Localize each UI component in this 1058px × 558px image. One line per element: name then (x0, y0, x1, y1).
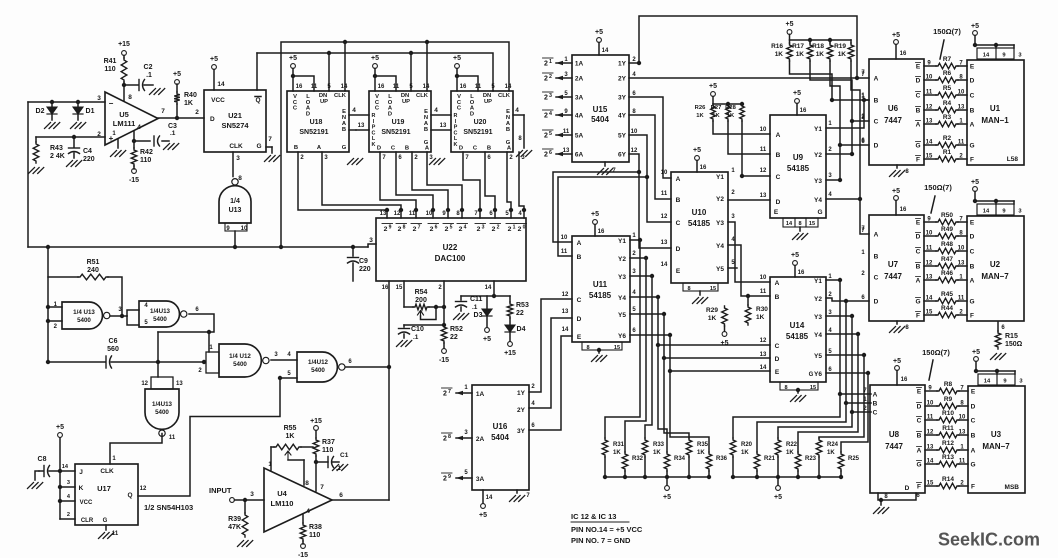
wire U5 output (158, 108, 204, 118)
svg-text:F: F (970, 313, 974, 320)
wire U22 pin 15 (403, 281, 405, 307)
wire U14 Y5 to R24 (819, 353, 866, 438)
input arrow 2^7 to U16 (442, 388, 473, 398)
svg-text:3: 3 (482, 225, 485, 231)
svg-text:C11: C11 (470, 296, 483, 303)
svg-text:R26: R26 (695, 105, 706, 111)
svg-text:C: C (577, 297, 582, 304)
svg-text:14: 14 (562, 327, 569, 333)
svg-text:Y5: Y5 (716, 266, 724, 273)
svg-text:8: 8 (687, 286, 690, 292)
svg-text:14: 14 (786, 221, 793, 227)
svg-text:2: 2 (67, 512, 70, 518)
svg-text:16: 16 (382, 285, 389, 291)
svg-text:D: D (916, 234, 921, 241)
svg-text:C4: C4 (83, 148, 92, 155)
svg-text:C: C (776, 174, 781, 181)
svg-text:6: 6 (195, 307, 199, 313)
svg-text:1: 1 (549, 59, 552, 65)
svg-text:U15: U15 (593, 105, 608, 114)
svg-text:14: 14 (505, 84, 512, 90)
svg-text:12: 12 (562, 292, 569, 298)
input arrow 2^9 to U16 (442, 473, 473, 483)
svg-text:3: 3 (236, 155, 240, 162)
wire net to U11 A (553, 170, 641, 242)
wire U15 3Y to U10 A (629, 97, 671, 178)
svg-text:Y4: Y4 (716, 243, 724, 250)
svg-text:C: C (917, 418, 922, 425)
svg-text:5: 5 (144, 320, 148, 326)
capacitor C6 560 (46, 338, 206, 368)
resistor R50 150ohm (924, 212, 967, 225)
wire U22 pin 3 node line (28, 244, 376, 247)
svg-text:CLK: CLK (498, 93, 511, 99)
svg-text:+5: +5 (793, 90, 801, 97)
svg-text:R16: R16 (771, 43, 783, 50)
svg-text:9: 9 (1003, 379, 1007, 385)
resistor R5 150ohm (924, 85, 967, 98)
svg-text:7447: 7447 (884, 116, 902, 125)
svg-text:+15: +15 (310, 418, 322, 425)
svg-text:2: 2 (544, 113, 548, 120)
svg-text:R17: R17 (792, 43, 804, 50)
svg-text:LM110: LM110 (271, 499, 294, 508)
counter U18 SN52191 (287, 84, 349, 152)
svg-text:6: 6 (861, 139, 865, 145)
power -15 at R38 (298, 541, 308, 558)
power +5 strap at U2 (971, 179, 1022, 215)
svg-text:6A: 6A (575, 152, 584, 159)
svg-text:A: A (873, 392, 878, 399)
power +5 at U21 pin 14 (210, 56, 225, 90)
svg-text:R9: R9 (944, 396, 953, 403)
wire U9 Y4 to U7 A (826, 199, 869, 234)
svg-text:2: 2 (544, 152, 548, 159)
resistor R17 1K (792, 43, 813, 61)
wire U16 1Y to U11 C (529, 299, 572, 392)
svg-text:C: C (457, 106, 462, 112)
svg-text:SN52191: SN52191 (299, 129, 328, 136)
input arrow 2^1 to U15 (543, 58, 573, 68)
svg-text:5: 5 (828, 349, 832, 355)
svg-text:13: 13 (562, 309, 569, 315)
svg-text:R51: R51 (87, 259, 100, 266)
svg-text:Y5: Y5 (814, 353, 822, 360)
svg-text:R42: R42 (140, 149, 153, 156)
input arrow 2^4 to U15 (543, 110, 573, 120)
svg-text:11: 11 (169, 435, 176, 441)
wire bus A drop to U19 pin 14 (426, 42, 428, 91)
svg-text:8: 8 (884, 494, 888, 500)
svg-text:2: 2 (300, 155, 304, 161)
svg-text:J: J (79, 469, 83, 476)
svg-text:B: B (294, 145, 298, 151)
resistor R11 150ohm (925, 425, 968, 438)
capacitor C3 .1 (132, 123, 179, 150)
svg-text:1K: 1K (727, 113, 735, 119)
svg-text:G: G (809, 372, 814, 378)
svg-text:2: 2 (549, 74, 552, 80)
svg-text:15: 15 (810, 385, 816, 391)
svg-text:1: 1 (209, 345, 213, 351)
converter U14 54185 (760, 274, 833, 382)
svg-text:G: G (506, 140, 511, 146)
svg-text:16: 16 (378, 84, 385, 90)
svg-text:6: 6 (549, 150, 552, 156)
svg-text:C: C (473, 146, 478, 152)
svg-text:5: 5 (564, 91, 568, 97)
diode D3 (474, 296, 492, 327)
power +5 at U19 pin 16 (371, 55, 396, 91)
wire U14 Y4 to R23 (798, 332, 860, 452)
svg-text:12: 12 (631, 148, 638, 154)
resistor R30 1K (745, 294, 768, 325)
svg-text:G: G (342, 145, 347, 151)
wire U14 Y3 to U8 C and R22 (778, 314, 871, 438)
svg-text:U11: U11 (593, 280, 608, 289)
svg-text:3A: 3A (575, 95, 584, 102)
svg-text:U17: U17 (97, 484, 111, 493)
svg-text:D1: D1 (86, 108, 95, 115)
svg-text:+5: +5 (971, 179, 979, 186)
ground tab at U11 (582, 342, 622, 362)
svg-text:14: 14 (984, 379, 991, 385)
svg-text:R39: R39 (228, 516, 241, 523)
svg-text:G: G (970, 462, 975, 469)
svg-text:1: 1 (863, 397, 867, 403)
svg-text:1K: 1K (653, 450, 661, 456)
wire U19 ENAB pin 4 to U20 (431, 107, 451, 130)
svg-text:R1: R1 (943, 149, 952, 156)
svg-text:4: 4 (549, 111, 552, 117)
svg-text:12: 12 (760, 338, 767, 344)
svg-text:1K: 1K (184, 100, 193, 107)
svg-text:1: 1 (861, 250, 865, 256)
svg-text:3: 3 (828, 310, 832, 316)
svg-text:Y1: Y1 (814, 278, 822, 285)
svg-text:1K: 1K (775, 51, 784, 58)
svg-text:16: 16 (900, 207, 907, 213)
svg-text:+5: +5 (173, 71, 181, 78)
svg-text:E: E (774, 209, 779, 216)
svg-text:110: 110 (104, 66, 115, 73)
wire U19 pin2 to DAC U22 (412, 152, 448, 218)
wire R31-R36 common bus to +5 (605, 477, 709, 485)
wire U20 pin7 to DAC U22 (463, 152, 480, 218)
power +15 at D4 (504, 342, 516, 357)
svg-text:C: C (375, 106, 380, 112)
wire U10 Y4 to U14 B (728, 245, 770, 296)
svg-text:7: 7 (861, 228, 865, 234)
svg-text:A: A (775, 280, 780, 287)
wire U9 Y2 to U6 C (826, 114, 869, 156)
svg-text:A: A (916, 122, 921, 129)
svg-text:1/2 SN54H103: 1/2 SN54H103 (144, 503, 193, 512)
svg-text:1Y: 1Y (517, 390, 526, 397)
resistor R18 1K (812, 43, 833, 61)
resistor R9 150ohm (925, 396, 968, 409)
svg-text:R38: R38 (309, 524, 322, 531)
svg-text:DAC100: DAC100 (435, 254, 466, 263)
svg-text:150Ω(7): 150Ω(7) (922, 348, 950, 357)
power +5 at U14 pin 16 (791, 252, 805, 277)
wire U19 pin7 to DAC U22 (380, 152, 416, 218)
svg-text:K: K (454, 142, 458, 148)
label 150ohm(7) for U1 resistors (933, 27, 961, 59)
svg-text:VCC: VCC (80, 500, 93, 506)
capacitor C9 220 (348, 245, 371, 281)
svg-text:8: 8 (403, 225, 406, 231)
wire R20-R25 common bus to +5 (733, 477, 841, 485)
svg-text:16: 16 (901, 377, 908, 383)
svg-text:8: 8 (456, 211, 460, 217)
svg-text:.1: .1 (413, 334, 419, 341)
svg-text:9: 9 (1002, 53, 1006, 59)
svg-text:2: 2 (430, 226, 434, 233)
svg-text:A: A (970, 122, 975, 129)
wire U14 Y6 to R25 (826, 371, 870, 452)
svg-text:9: 9 (1002, 209, 1006, 215)
svg-text:E: E (971, 389, 976, 396)
svg-text:4: 4 (137, 124, 141, 131)
power +5 at U20 pin 16 (453, 55, 478, 91)
svg-text:5404: 5404 (491, 433, 509, 442)
svg-text:U6: U6 (888, 104, 899, 113)
svg-text:110: 110 (309, 532, 320, 539)
svg-text:R4: R4 (943, 100, 952, 107)
svg-text:B: B (873, 401, 878, 408)
svg-text:2: 2 (195, 109, 199, 116)
svg-text:Y2: Y2 (814, 152, 822, 159)
svg-text:4: 4 (434, 107, 438, 114)
svg-text:13: 13 (661, 240, 668, 246)
wire U10 Y3 to U14 A (728, 222, 770, 282)
wire R18 to U6 D net (830, 61, 842, 147)
svg-text:B: B (917, 433, 922, 440)
svg-text:R21: R21 (764, 456, 776, 462)
svg-text:11: 11 (112, 531, 119, 537)
svg-text:+5: +5 (693, 147, 701, 154)
ground tab at U10 (683, 283, 718, 304)
svg-text:E: E (577, 334, 582, 341)
svg-text:3: 3 (521, 155, 525, 161)
svg-text:Y2: Y2 (814, 296, 822, 303)
svg-text:Y6: Y6 (814, 371, 822, 378)
svg-text:R22: R22 (786, 442, 798, 448)
svg-text:C: C (916, 93, 921, 100)
power +15 supply (118, 41, 130, 58)
resistor R46 150ohm (924, 270, 967, 283)
wire DAC input junction dots (385, 208, 526, 212)
svg-text:B: B (577, 254, 582, 261)
wire gate U13c output to gate U12a and U13d (156, 314, 214, 377)
svg-text:Q: Q (255, 97, 260, 104)
wire U9 Y3 to U6 D (826, 138, 869, 182)
svg-text:7447: 7447 (884, 272, 902, 281)
svg-text:R18: R18 (812, 43, 824, 50)
svg-text:SN52191: SN52191 (463, 129, 492, 136)
svg-text:U16: U16 (493, 422, 508, 431)
resistor R21 (754, 452, 775, 479)
svg-text:560: 560 (107, 346, 119, 353)
svg-text:22: 22 (516, 310, 524, 317)
svg-text:14: 14 (983, 53, 990, 59)
svg-text:1: 1 (632, 233, 636, 239)
wire U20 pin 4 to ground (513, 107, 532, 157)
svg-text:6: 6 (916, 493, 920, 499)
svg-text:14: 14 (661, 262, 668, 268)
nand gate U12b 1/4U12 5400 (297, 352, 352, 382)
svg-text:R19: R19 (834, 43, 846, 50)
svg-text:54185: 54185 (787, 164, 810, 173)
svg-text:R43: R43 (50, 145, 63, 152)
resistor R44 150ohm (924, 305, 967, 318)
svg-text:3Y: 3Y (618, 95, 627, 102)
svg-text:5400: 5400 (153, 316, 167, 323)
wire net to U11 B (558, 175, 649, 256)
svg-text:2: 2 (828, 292, 832, 298)
wire R16-R19 top bus (790, 38, 852, 43)
resistor R3 150ohm (924, 114, 967, 127)
svg-text:R25: R25 (848, 456, 860, 462)
ground tab at U9 (783, 218, 818, 240)
svg-text:3Y: 3Y (517, 428, 526, 435)
svg-text:D: D (874, 299, 879, 306)
svg-text:Y5: Y5 (618, 312, 626, 319)
svg-text:CLK: CLK (100, 468, 114, 475)
wire U18 pin2 to DAC U22 (298, 152, 387, 218)
resistor R22 1K (775, 438, 797, 479)
svg-text:7447: 7447 (885, 442, 903, 451)
resistor R48 150ohm (924, 241, 967, 254)
wire U19 pin3 to DAC U22 (427, 152, 462, 218)
resistor R45 150ohm (924, 291, 967, 304)
svg-text:U10: U10 (692, 208, 707, 217)
svg-text:12: 12 (661, 214, 668, 220)
svg-text:8: 8 (784, 385, 787, 391)
input arrow 2^8 to U16 (442, 433, 473, 443)
svg-text:6: 6 (531, 423, 535, 429)
svg-text:9: 9 (448, 474, 451, 480)
svg-text:8: 8 (305, 480, 309, 487)
wire gate U12b output to U22 pin16 net (346, 365, 391, 369)
resistor R42 110 (131, 141, 153, 166)
svg-text:16: 16 (800, 108, 807, 114)
svg-text:2: 2 (497, 225, 500, 231)
svg-text:Y4: Y4 (618, 295, 626, 302)
svg-text:2 4K: 2 4K (50, 153, 65, 160)
wire top clock bus line A (279, 40, 509, 249)
svg-text:U7: U7 (888, 260, 899, 269)
svg-text:E: E (917, 389, 922, 396)
wire U11 Y5 to U14 D and R35 (630, 312, 770, 438)
wire U17 Q feedback to gate U12b pin 5 (138, 376, 297, 496)
svg-text:U2: U2 (990, 260, 1001, 269)
wire U16 pin 14 to +5 (479, 490, 493, 519)
svg-text:Y4: Y4 (814, 197, 822, 204)
wire U5 pin 2 input (36, 136, 105, 138)
svg-text:C3: C3 (168, 123, 177, 130)
wire top bus line B from U21 Q (257, 51, 493, 91)
svg-text:D4: D4 (517, 326, 526, 333)
svg-text:E: E (916, 220, 921, 227)
nand gate U13d 1/4U13 5400 (vertical) (145, 389, 179, 441)
svg-text:2: 2 (445, 226, 449, 233)
wire input bracket at gate U13d (141, 377, 183, 389)
wire U22 pin 16 feedback from U4 output (388, 281, 390, 500)
wire U14 Y1 to U8 A and R20 (733, 278, 871, 438)
svg-text:3: 3 (369, 237, 373, 244)
svg-text:1/4: 1/4 (230, 198, 240, 205)
svg-text:MAN−1: MAN−1 (981, 116, 1009, 125)
svg-text:2: 2 (443, 436, 447, 443)
nand gate U13a 1/4 U13 (clock gate) (219, 175, 251, 232)
svg-text:+5: +5 (453, 55, 461, 62)
resistor R53 22 (507, 296, 529, 318)
svg-text:C1: C1 (340, 452, 349, 459)
svg-text:150Ω(7): 150Ω(7) (924, 183, 952, 192)
svg-text:A: A (874, 76, 879, 83)
svg-text:A: A (425, 146, 430, 152)
svg-text:R52: R52 (450, 326, 463, 333)
svg-text:R31: R31 (613, 442, 625, 448)
svg-text:2: 2 (518, 226, 522, 233)
svg-text:6: 6 (398, 155, 402, 161)
svg-text:1K: 1K (697, 450, 705, 456)
svg-text:2Y: 2Y (517, 407, 526, 414)
wire U15 4Y to U10 B (629, 115, 671, 199)
resistor R37 110 (313, 430, 335, 462)
svg-text:10: 10 (661, 170, 668, 176)
display U3 MAN-7 (959, 386, 1025, 494)
svg-text:4A: 4A (575, 113, 584, 120)
svg-text:C2: C2 (144, 64, 153, 71)
svg-text:7: 7 (612, 168, 616, 174)
svg-text:11: 11 (760, 147, 767, 153)
resistor R28 1K (725, 104, 744, 121)
svg-text:2: 2 (438, 285, 442, 291)
svg-text:G: G (103, 518, 108, 524)
svg-text:R30: R30 (756, 306, 768, 313)
svg-text:C: C (916, 249, 921, 256)
svg-text:2: 2 (198, 368, 202, 374)
svg-text:1K: 1K (286, 433, 295, 440)
svg-text:VCC: VCC (211, 97, 225, 104)
svg-text:SN5274: SN5274 (221, 121, 249, 130)
svg-text:1/4 U13: 1/4 U13 (73, 309, 95, 316)
svg-text:220: 220 (359, 266, 371, 273)
svg-text:11: 11 (563, 129, 570, 135)
svg-text:4: 4 (632, 72, 636, 78)
svg-text:5404: 5404 (591, 115, 609, 124)
svg-text:R8: R8 (944, 381, 953, 388)
svg-text:+5: +5 (663, 494, 671, 501)
converter U10 54185 (661, 168, 736, 283)
svg-text:+5: +5 (774, 494, 782, 501)
svg-text:3: 3 (632, 269, 636, 275)
svg-text:5400: 5400 (311, 367, 325, 374)
svg-text:U1: U1 (990, 104, 1001, 113)
resistor R1 150ohm (924, 149, 967, 162)
input arrow 2^6 to U15 (543, 149, 573, 159)
svg-text:UP: UP (484, 99, 492, 105)
svg-text:11: 11 (760, 289, 767, 295)
wire U11 Y4 to U14 C and R34 (630, 295, 770, 452)
svg-text:4: 4 (515, 107, 519, 114)
svg-text:R35: R35 (697, 442, 709, 448)
svg-text:11: 11 (661, 191, 668, 197)
svg-text:UP: UP (402, 99, 410, 105)
